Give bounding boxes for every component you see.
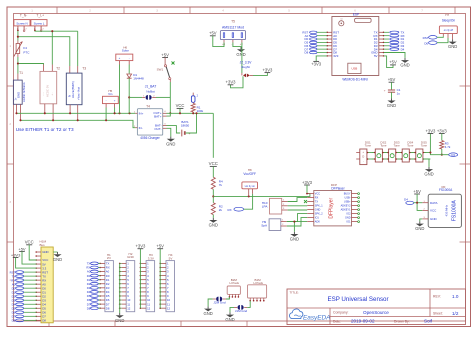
net label D4 (H1M) (12, 302, 37, 306)
svg-text:-: - (363, 160, 364, 163)
ground T5 (240, 47, 242, 49)
switch SW1 (157, 52, 175, 82)
net label D5 (H1) (87, 294, 101, 298)
svg-text:VCC: VCC (430, 209, 437, 213)
connector H3 3.3V (140, 253, 155, 312)
net label D0 (H1M) (12, 286, 37, 290)
svg-text:J2_3.3V: J2_3.3V (240, 60, 253, 64)
net label D7 (H1M) (12, 314, 37, 318)
net label TX (H1M) (12, 274, 37, 278)
svg-text:GND: GND (115, 318, 124, 323)
svg-text:IO1: IO1 (315, 217, 320, 220)
svg-text:USB: USB (352, 67, 358, 71)
wire RF gnd (420, 219, 423, 222)
net label RST (H7) (423, 36, 444, 41)
net label A0 (H1) (87, 270, 101, 274)
ground J2M (207, 306, 209, 308)
svg-text:PTC: PTC (23, 50, 30, 54)
resistor R4 7k (211, 177, 223, 189)
net label D6 (H1M) (12, 310, 37, 314)
jumper J2M Gnd (213, 297, 226, 305)
svg-text:H Pads: H Pads (229, 281, 239, 285)
wire N branch to T3 (18, 37, 70, 66)
svg-text:D8: D8 (304, 51, 308, 55)
svg-text:TX: TX (315, 201, 319, 204)
net label D0 (H7) (424, 38, 448, 46)
wire VCC rail (17, 112, 136, 114)
svg-text:ESP: ESP (353, 12, 359, 16)
no-connect TX (304, 200, 307, 203)
wire L to T2 (51, 31, 53, 64)
regulator module T5 AMS1117 (220, 19, 245, 46)
svg-text:GND: GND (345, 217, 351, 220)
svg-text:REV:: REV: (433, 295, 441, 299)
svg-text:IO1: IO1 (346, 221, 351, 224)
svg-text:+3V3: +3V3 (11, 252, 21, 257)
net label D6 (H1) (87, 298, 101, 302)
svg-text:ACDC 5V: ACDC 5V (46, 85, 50, 97)
svg-text:I/O: I/O (107, 256, 112, 260)
svg-text:J1M Gnd: J1M Gnd (235, 309, 248, 313)
svg-text:Tone: Tone (380, 144, 387, 148)
svg-text:+3V3: +3V3 (226, 80, 237, 85)
wire H3 rail (139, 249, 141, 309)
svg-text:WEMOS-D1-MINI: WEMOS-D1-MINI (342, 77, 367, 81)
net label D0 (ESP left) (304, 37, 326, 41)
svg-text:T_N-: T_N- (20, 14, 27, 18)
wire solar+ to VCC rail (119, 65, 121, 114)
svg-text:D4: D4 (404, 197, 408, 201)
header H8 Vcc/OFF (242, 168, 258, 196)
svg-text:-: - (129, 56, 130, 60)
VCC flag H1M (25, 240, 37, 260)
net label D7 (ESP left) (304, 47, 326, 51)
wire H9-1 (287, 214, 308, 222)
svg-text:NoBat: NoBat (146, 90, 155, 94)
wire ESP 5V (384, 56, 393, 68)
svg-text:GND: GND (430, 217, 438, 221)
ground chain (428, 167, 430, 169)
net label D5 (H1M) (12, 306, 37, 310)
wire N branch to T2 (18, 64, 44, 65)
svg-text:ADK: ADK (315, 221, 320, 224)
svg-text:F4: F4 (23, 46, 27, 50)
ground at DFPlayer (293, 232, 295, 234)
wire divider node (212, 189, 214, 202)
svg-text:USB+: USB+ (344, 201, 351, 204)
svg-text:D8: D8 (87, 306, 91, 310)
svg-text:1.0: 1.0 (452, 294, 459, 299)
pads B2M H Pads (227, 278, 240, 298)
net label D4 (ESP right) (384, 47, 405, 51)
diode D1 1N4448 (127, 65, 144, 81)
net label RX (ESP right) (384, 34, 405, 38)
device DS3 Tone (385, 140, 400, 162)
svg-text:GND: GND (17, 92, 21, 98)
svg-text:GND: GND (315, 209, 321, 212)
header H7 Sleep/On (439, 13, 457, 39)
svg-text:DFPlayer: DFPlayer (329, 197, 335, 218)
wire J1M to gnd (230, 307, 234, 312)
net label D2 (H1M) (12, 294, 37, 298)
svg-text:D0: D0 (424, 42, 428, 46)
svg-text:vcc rly on: vcc rly on (245, 185, 256, 188)
svg-text:FS1000A: FS1000A (439, 188, 453, 192)
svg-text:J1_BAT: J1_BAT (145, 85, 156, 89)
svg-text:GND: GND (448, 44, 457, 49)
wire R2 to gnd (212, 215, 214, 218)
net label RX (H1) (86, 266, 100, 270)
net label D3 (H1) (87, 286, 101, 290)
connector H2 GND (119, 252, 135, 312)
svg-text:GND: GND (236, 52, 245, 57)
title block (287, 289, 466, 325)
wire DFP gnd (294, 222, 307, 232)
svg-text:5V: 5V (374, 54, 378, 58)
wire BAT- to battery (167, 126, 181, 133)
fuse F2 (191, 93, 198, 103)
svg-text:12: 12 (167, 306, 171, 310)
svg-text:HiLink(5M05): HiLink(5M05) (71, 81, 75, 98)
svg-text:4.7k: 4.7k (445, 145, 451, 149)
net label RX (divider) (228, 194, 253, 212)
module ESP WEMOS D1 MINI (326, 12, 384, 81)
wire J2M to gnd (208, 299, 213, 306)
wire ESP GND (384, 53, 405, 58)
svg-text:+3V3: +3V3 (302, 180, 313, 185)
svg-text:Tone: Tone (421, 144, 428, 148)
power module T1 AC/DC HLK-PM01 (13, 71, 26, 120)
ground under T4 (170, 137, 172, 139)
svg-text:ADKEY2: ADKEY2 (341, 205, 351, 208)
svg-text:7k: 7k (219, 183, 223, 187)
wire to VCC branch (212, 113, 214, 158)
net label D1 (H1M) (12, 290, 37, 294)
net label A0 (H1M) (12, 282, 37, 286)
net label RST (H1M) (10, 270, 37, 274)
svg-text:+3V3: +3V3 (311, 61, 322, 66)
wire +3V3 return (231, 76, 244, 88)
svg-text:18650: 18650 (181, 124, 190, 128)
VCC flag divider (209, 161, 218, 178)
svg-text:GND: GND (424, 172, 433, 177)
wire divider to DFPlayer (213, 194, 310, 197)
ground H2 (119, 313, 121, 315)
svg-text:VCC: VCC (209, 161, 218, 166)
svg-text:RX: RX (228, 208, 232, 212)
svg-text:Screw N: Screw N (16, 21, 27, 25)
svg-text:SPK_1: SPK_1 (315, 205, 323, 208)
svg-text:on rly off: on rly off (444, 29, 453, 32)
svg-text:BUSY: BUSY (344, 193, 351, 196)
svg-text:GND: GND (53, 257, 62, 262)
connector Screw L (T_L+) (31, 14, 47, 32)
svg-text:+3V3: +3V3 (425, 128, 436, 133)
wire SW1 to charger node (169, 82, 171, 113)
svg-text:IN+: IN+ (139, 111, 144, 115)
svg-text:Tone: Tone (394, 144, 401, 148)
module DFP DFPlayer (307, 183, 359, 226)
svg-text:2019-09-02: 2019-09-02 (351, 319, 375, 324)
svg-text:SW1: SW1 (157, 67, 164, 71)
net label TX (H1) (87, 262, 101, 266)
ground at ESP (404, 58, 406, 60)
svg-text:Sheet:: Sheet: (433, 312, 443, 316)
wire BAT+ (167, 113, 171, 116)
svg-text:GND: GND (42, 250, 48, 254)
svg-text:Company:: Company: (333, 311, 349, 315)
header H9 SpA (261, 219, 286, 231)
svg-text:3.3V: 3.3V (148, 256, 154, 260)
wire OUT- to GND (167, 128, 171, 136)
svg-text:4056 Charger: 4056 Charger (140, 136, 160, 140)
svg-text:Bus: Bus (40, 243, 46, 247)
ground divider (212, 218, 214, 220)
net label D3 (ESP right) (384, 44, 405, 48)
svg-text:D3: D3 (451, 153, 455, 157)
wire T5 gnd (233, 43, 241, 48)
svg-text:FS1000A: FS1000A (452, 200, 458, 222)
connector H1M Bus (35, 240, 53, 323)
svg-text:Screw L: Screw L (34, 21, 45, 25)
device DS5 Tone (412, 140, 427, 162)
svg-text:100k: 100k (197, 109, 204, 113)
svg-text:ADKEY1: ADKEY1 (341, 209, 351, 212)
+3V3 flag H1M (11, 252, 37, 268)
wire charger output node (167, 112, 214, 114)
battery BAT1 18650 (181, 120, 191, 136)
svg-text:+: + (384, 88, 386, 92)
net label D0 (H1) (87, 274, 101, 278)
svg-text:J2M Gnd: J2M Gnd (213, 301, 226, 305)
wire H9-2 (287, 218, 308, 226)
svg-text:433 MHz: 433 MHz (445, 204, 449, 216)
svg-text:BAT+: BAT+ (154, 114, 162, 118)
svg-text:VCC: VCC (315, 193, 320, 196)
ground J1M (229, 312, 231, 314)
wire LED chain (367, 152, 431, 160)
net label RST (ESP left) (302, 31, 326, 35)
svg-text:GND: GND (203, 311, 212, 316)
header H10 LPA (262, 198, 288, 214)
wire to +3V3 (253, 73, 267, 76)
net label D8 (H1) (87, 306, 101, 310)
svg-text:T1: T1 (19, 71, 23, 75)
net label D5 (ESP left) (304, 41, 326, 45)
wire chain bottom to gnd (423, 159, 429, 167)
svg-text:2k: 2k (219, 208, 223, 212)
svg-text:+5V: +5V (209, 31, 217, 36)
net label TX (ESP right) (384, 31, 405, 35)
wire chain top to +3V3 (429, 134, 431, 153)
svg-text:GND: GND (127, 255, 135, 259)
wire +3V3 to DFP VCC (306, 185, 308, 194)
net label D3 (H1M) (12, 298, 37, 302)
svg-text:T4: T4 (146, 104, 150, 108)
svg-text:Tone: Tone (407, 144, 414, 148)
net label D4 (H1) (87, 290, 101, 294)
net label D3 (chain) (449, 153, 458, 157)
wire H10-2 (288, 205, 308, 207)
header H5 Vin (103, 89, 119, 108)
module RF FS1000A (422, 185, 461, 227)
svg-text:1/2: 1/2 (452, 311, 459, 316)
svg-text:+3V3: +3V3 (262, 67, 273, 72)
svg-text:VCC: VCC (25, 240, 34, 245)
net label D8 (H1M) (12, 318, 37, 322)
power module T3 HiLink 5M05 (66, 66, 86, 120)
svg-text:12: 12 (147, 306, 151, 310)
net label D1 (H1) (87, 278, 101, 282)
jumper J1M Gnd (234, 305, 247, 313)
power module T2 (40, 65, 60, 120)
svg-text:DFPlayer: DFPlayer (331, 187, 345, 191)
wire H2 gnd rail (119, 263, 121, 313)
svg-text:+3V3: +3V3 (135, 244, 146, 249)
svg-text:Vcc/OFF: Vcc/OFF (243, 172, 256, 176)
fuse F4 PTC (14, 41, 30, 58)
device DS1 Tone (356, 140, 371, 164)
svg-text:Date:: Date: (333, 319, 341, 323)
wire H5 to rails (105, 108, 107, 121)
net label RX (H1M) (11, 278, 36, 282)
svg-text:-: - (106, 99, 107, 103)
ground RF (419, 221, 421, 223)
svg-text:USB-: USB- (345, 197, 351, 200)
resistor R1 100k (191, 102, 203, 114)
wire GND rail (21, 120, 136, 127)
ground at H7 (452, 39, 454, 41)
wire B1M to J1M (247, 301, 250, 308)
svg-text:GND: GND (209, 223, 218, 228)
+3V3 flag at ESP (313, 60, 319, 62)
wire N net (17, 31, 19, 41)
wire D1 to battery node (128, 78, 130, 113)
svg-text:+5V: +5V (389, 60, 397, 65)
wire L net (35, 30, 78, 32)
wire +5V to VCC (417, 194, 422, 210)
svg-text:+5V: +5V (413, 189, 421, 194)
svg-text:TITLE:: TITLE: (290, 291, 299, 295)
svg-text:3V3: 3V3 (333, 54, 339, 58)
svg-text:AC/DC hi703mA: AC/DC hi703mA (22, 82, 26, 102)
device DS4 Tone (399, 140, 414, 162)
svg-text:RegNt: RegNt (241, 65, 250, 69)
svg-text:D4: D4 (401, 47, 405, 51)
svg-text:1u: 1u (397, 92, 401, 96)
svg-text:EasyEDA: EasyEDA (303, 315, 330, 322)
svg-text:T2: T2 (56, 66, 60, 70)
svg-text:VCC: VCC (176, 103, 185, 108)
svg-text:T_L+: T_L+ (36, 14, 44, 18)
svg-text:T5: T5 (231, 19, 235, 23)
connector H1 I/O (99, 253, 113, 312)
svg-text:RST: RST (423, 36, 429, 40)
net label D1 (ESP right) (384, 37, 405, 41)
wire battery + (186, 113, 197, 133)
svg-text:+5V: +5V (156, 244, 164, 249)
net label D2 (H1) (87, 282, 101, 286)
net label D6 (ESP left) (304, 44, 326, 48)
svg-text:D8: D8 (12, 318, 16, 322)
capacitor C1 1u (384, 82, 401, 98)
svg-text:GND: GND (400, 63, 409, 68)
svg-text:+5V: +5V (18, 246, 26, 251)
charger module T4 4056 (134, 104, 167, 140)
svg-text:+5V: +5V (161, 52, 169, 57)
svg-text:IN-: IN- (139, 126, 143, 130)
svg-text:OUT-: OUT- (154, 127, 161, 131)
svg-text:+5V: +5V (388, 77, 396, 82)
svg-text:GND: GND (225, 317, 234, 322)
net label D7 (H1) (87, 302, 101, 306)
ground at C1 (391, 98, 393, 100)
wire L to T3 (77, 31, 79, 66)
resistor R3 4.7k (440, 134, 451, 156)
wire data to net label (430, 153, 448, 155)
svg-text:AMS1117 Mod: AMS1117 Mod (222, 26, 244, 30)
svg-text:ESP Universal Sensor: ESP Universal Sensor (327, 296, 388, 303)
svg-text:IO2: IO2 (346, 213, 351, 216)
jumper J2_3.3V RegNt (240, 60, 253, 77)
svg-text:D: D (362, 155, 364, 159)
wire +5V to T5 in (213, 36, 224, 47)
wire J1_BAT (129, 96, 142, 98)
svg-text:Sleep/On: Sleep/On (442, 18, 456, 22)
wire N below PTC (17, 57, 19, 74)
wire H10-1 to DFP RX (288, 198, 308, 202)
wire 3V3 pin (316, 56, 327, 62)
wire T5 out (241, 43, 243, 74)
header H6 Solar (116, 45, 133, 64)
svg-text:SpA: SpA (261, 224, 268, 228)
net label D4 (RF) (404, 197, 422, 204)
svg-text:Soif: Soif (424, 319, 433, 324)
svg-text:GND: GND (415, 226, 424, 231)
svg-text:GND: GND (166, 141, 175, 146)
connector H4 5V (159, 253, 174, 312)
svg-text:12: 12 (127, 306, 131, 310)
net label A0 (ESP left) (305, 34, 327, 38)
svg-text:LPA: LPA (262, 205, 269, 209)
svg-text:H7: H7 (445, 13, 449, 17)
svg-text:+Vout -Vout: +Vout -Vout (77, 87, 80, 100)
ground at H1M (53, 252, 62, 262)
svg-text:OpenSource: OpenSource (363, 310, 389, 315)
device DS2 Tone (372, 140, 387, 162)
svg-text:SPK_2: SPK_2 (315, 213, 323, 216)
svg-text:Tone: Tone (365, 144, 372, 148)
svg-text:RX: RX (315, 197, 319, 200)
wire B2M to J2M (226, 297, 229, 299)
pads B1M H Pads (248, 278, 267, 302)
svg-text:DATA: DATA (430, 201, 438, 205)
svg-text:+ -: + - (51, 92, 54, 95)
connector Screw N (T_N-) (14, 14, 30, 32)
svg-text:D8: D8 (42, 319, 46, 323)
svg-text:T3: T3 (82, 66, 86, 70)
wire H10-3 (288, 209, 308, 211)
wire H4 rail (159, 249, 161, 309)
svg-text:GND: GND (290, 237, 299, 242)
svg-text:Solar: Solar (122, 49, 129, 53)
svg-text:Use EITHER T1 or T2 or T3: Use EITHER T1 or T2 or T3 (16, 127, 74, 132)
svg-text:Drawn By:: Drawn By: (394, 319, 410, 323)
svg-text:GND: GND (387, 103, 396, 108)
svg-text:D8: D8 (106, 306, 110, 310)
svg-text:Vin: Vin (108, 92, 113, 96)
+5V flag H1M (18, 246, 36, 264)
